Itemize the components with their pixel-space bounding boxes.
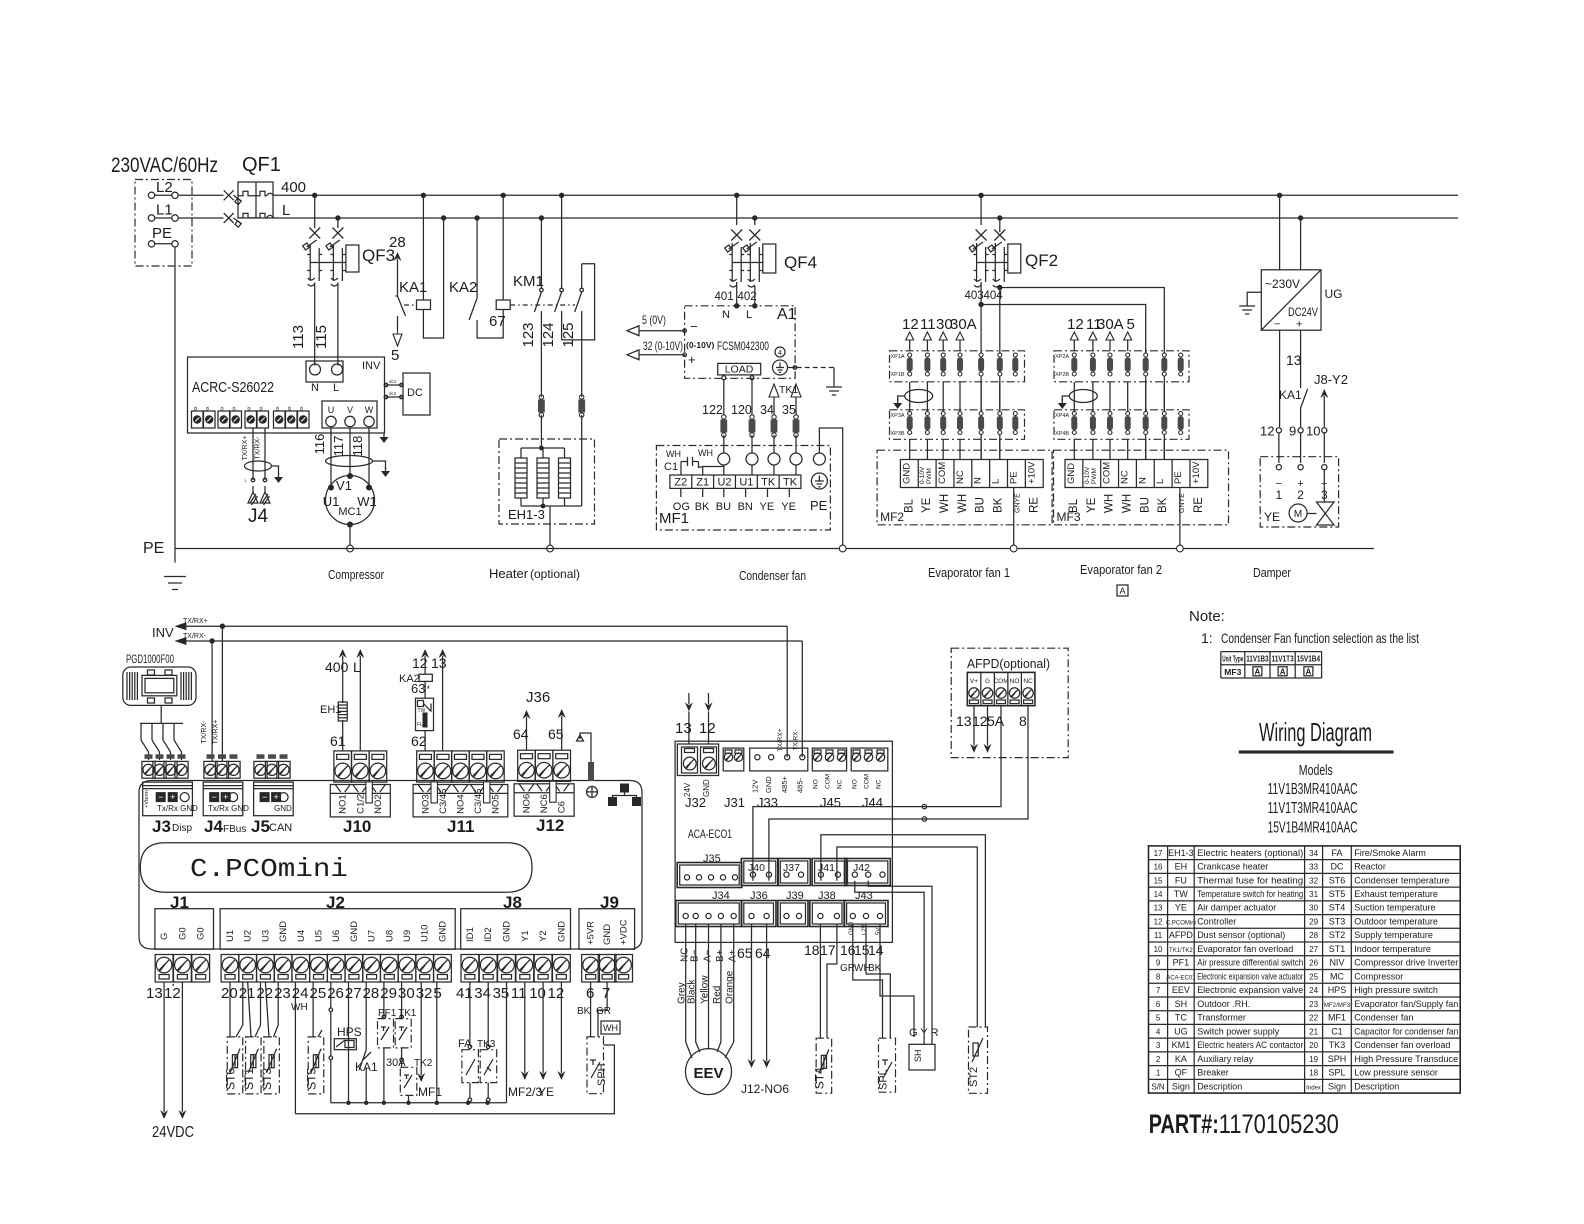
svg-text:Breaker: Breaker: [1197, 1068, 1229, 1078]
reactor DC box: [403, 373, 430, 415]
svg-text:30: 30: [1309, 904, 1318, 913]
svg-text:14: 14: [1154, 890, 1163, 899]
shield ellipse MF2: [905, 390, 933, 403]
damper motor M: [1289, 504, 1307, 522]
svg-text:20: 20: [1309, 1041, 1318, 1050]
svg-text:YE: YE: [760, 501, 775, 513]
svg-text:XP3A: XP3A: [891, 413, 905, 419]
svg-text:RE: RE: [1193, 497, 1205, 513]
24VDC wires: [163, 982, 165, 1112]
svg-text:1: 1: [1156, 1069, 1161, 1078]
svg-text:WH: WH: [698, 448, 713, 458]
svg-text:NO3: NO3: [420, 794, 431, 814]
svg-text:5: 5: [1127, 316, 1135, 333]
svg-text:U6: U6: [331, 930, 342, 942]
svg-text:YE: YE: [1175, 903, 1187, 913]
terminal L1: [148, 215, 154, 221]
analog input 32(0-10V): [639, 354, 685, 356]
inverter control terminal strip: [192, 411, 204, 428]
svg-text:ID1: ID1: [465, 927, 476, 942]
junction on 400 bus: [421, 193, 426, 198]
svg-text:PE: PE: [143, 540, 164, 557]
svg-text:DC24V: DC24V: [1288, 305, 1318, 319]
svg-text:1170105230: 1170105230: [1219, 1109, 1339, 1139]
svg-text:TX/RX-: TX/RX-: [183, 633, 207, 640]
svg-text:xx: xx: [193, 406, 199, 412]
svg-text:35: 35: [782, 403, 796, 417]
shield ellipse MF3: [1069, 390, 1097, 403]
svg-text:Y2: Y2: [538, 930, 549, 942]
svg-text:67: 67: [489, 313, 506, 330]
svg-text:BK: BK: [695, 501, 710, 513]
svg-text:230VAC/60Hz: 230VAC/60Hz: [111, 154, 218, 177]
svg-text:Condenser fan: Condenser fan: [739, 568, 806, 583]
svg-text:HPS: HPS: [337, 1025, 362, 1039]
svg-text:xx: xx: [247, 406, 253, 412]
svg-text:25: 25: [310, 985, 327, 1002]
PE bus ground: [164, 549, 186, 590]
connector J35: [677, 863, 742, 888]
svg-text:12V: 12V: [750, 780, 759, 793]
svg-text:16: 16: [1154, 863, 1163, 872]
svg-text:N: N: [1137, 477, 1148, 484]
svg-text:61: 61: [330, 733, 346, 749]
mains input terminal box: [135, 180, 192, 267]
svg-text:Tx/Rx GND: Tx/Rx GND: [157, 804, 198, 813]
fan controller A1 box: [685, 306, 796, 379]
terminal block J11: [417, 751, 435, 782]
J8 screw terminals: [461, 955, 479, 983]
svg-text:Controller: Controller: [1197, 916, 1236, 926]
svg-text:V+: V+: [970, 678, 978, 685]
svg-text:TX/RX-: TX/RX-: [201, 720, 208, 744]
svg-text:17: 17: [820, 942, 836, 958]
junction on 400 bus: [501, 193, 506, 198]
power supply UG: [1279, 195, 1281, 269]
wire MC1 to PE bus: [349, 525, 351, 546]
input arrows 13 12: [688, 693, 690, 704]
svg-text:NO: NO: [1010, 678, 1020, 685]
svg-text:BK: BK: [577, 1006, 591, 1017]
link wires INV to DC: [385, 384, 404, 386]
svg-text:L: L: [333, 382, 339, 394]
svg-text:KA1: KA1: [1279, 388, 1302, 402]
svg-text:+: +: [688, 352, 696, 367]
lower bus A: [331, 1102, 507, 1104]
wire L2 to QF1: [178, 194, 223, 196]
connector J41: [812, 859, 847, 886]
svg-text:LOAD: LOAD: [725, 364, 754, 376]
svg-text:PWM: PWM: [926, 468, 933, 484]
svg-text:XP2B: XP2B: [1055, 372, 1069, 378]
svg-text:Thermal fuse for heating: Thermal fuse for heating: [1197, 875, 1303, 885]
svg-text:SH: SH: [1175, 999, 1188, 1009]
svg-text:COM: COM: [1102, 462, 1113, 484]
svg-text:A: A: [1306, 668, 1312, 677]
svg-text:4: 4: [1156, 1027, 1161, 1036]
svg-text:Condenser temperature: Condenser temperature: [1354, 875, 1449, 885]
overload TK1 TK2: [401, 982, 403, 1019]
svg-text:26: 26: [327, 985, 344, 1002]
contact TK3: [487, 982, 489, 1045]
svg-text:~230V: ~230V: [1265, 277, 1300, 291]
svg-text:Reactor: Reactor: [1354, 862, 1386, 872]
svg-text:U9: U9: [402, 930, 413, 942]
dust sensor AFPD box: [951, 648, 1068, 757]
svg-text:GND: GND: [556, 921, 567, 942]
svg-text:Capacitor for condenser fan: Capacitor for condenser fan: [1354, 1026, 1458, 1036]
svg-text:AFPD(optional): AFPD(optional): [967, 656, 1050, 671]
svg-text:TC: TC: [1175, 1013, 1187, 1023]
svg-text:xx: xx: [275, 406, 281, 412]
svg-text:120: 120: [731, 403, 752, 417]
svg-text:BN: BN: [738, 501, 753, 513]
svg-text:13: 13: [146, 985, 163, 1002]
svg-text:N: N: [722, 309, 730, 321]
svg-text:FA: FA: [458, 1038, 472, 1050]
svg-text:MC1: MC1: [338, 506, 361, 518]
wire J40 pin1 to AFPD COM: [753, 706, 1001, 881]
UG ground: [1247, 292, 1261, 302]
svg-text:ID2: ID2: [483, 927, 494, 942]
wire 64 from J12 NO6: [526, 717, 528, 750]
svg-text:UG: UG: [1174, 1026, 1188, 1036]
connector J38: [810, 901, 845, 927]
wire EH1-3 to PE bus: [549, 506, 551, 524]
svg-text:GND: GND: [849, 921, 855, 935]
wire 62 KA2 TW FU: [424, 656, 426, 674]
svg-text:EH: EH: [1175, 862, 1188, 872]
svg-text:29: 29: [1309, 917, 1318, 926]
terminal block J12: [518, 750, 536, 781]
svg-text:GND: GND: [502, 921, 513, 942]
sensor ST4: [816, 1038, 832, 1093]
junction on L bus: [539, 215, 544, 220]
svg-text:31: 31: [1309, 890, 1318, 899]
svg-text:ST2: ST2: [1329, 930, 1346, 940]
svg-text:30A: 30A: [1097, 316, 1124, 333]
svg-text:62: 62: [411, 733, 427, 749]
svg-text:485-: 485-: [795, 777, 804, 793]
wire 27 to bus: [348, 982, 350, 1103]
junction on 400 bus: [734, 193, 739, 198]
svg-text:NC: NC: [1119, 470, 1130, 484]
svg-text:MF2/MF3: MF2/MF3: [1324, 1002, 1351, 1009]
wire 14 to SH G: [880, 924, 914, 1037]
svg-text:NO5: NO5: [490, 794, 501, 814]
svg-text:G0: G0: [177, 927, 188, 940]
svg-text:29: 29: [380, 985, 397, 1002]
svg-text:ST3: ST3: [1329, 916, 1346, 926]
svg-text:L: L: [282, 202, 290, 219]
svg-text:124: 124: [540, 322, 557, 347]
svg-text:TK1: TK1: [779, 384, 798, 396]
svg-text:HPS: HPS: [1328, 985, 1347, 995]
svg-text:−: −: [1274, 319, 1280, 331]
svg-text:5V: 5V: [876, 928, 882, 935]
svg-text:ACA-ECO1: ACA-ECO1: [688, 827, 732, 841]
svg-text:ST2: ST2: [968, 1067, 980, 1087]
svg-text:ST4: ST4: [812, 1067, 826, 1089]
svg-text:MF3: MF3: [1057, 510, 1081, 524]
svg-text:Outdoor temperature: Outdoor temperature: [1354, 916, 1438, 926]
svg-text:12: 12: [412, 655, 428, 671]
connector J42: [845, 859, 890, 886]
svg-text:400: 400: [281, 179, 306, 196]
connector J36b: [741, 901, 776, 927]
fan MF3 PE wire to bus: [1179, 488, 1181, 546]
svg-text:13: 13: [1154, 904, 1163, 913]
damper valve: [1317, 502, 1335, 525]
svg-text:12: 12: [1067, 316, 1084, 333]
svg-text:G: G: [985, 678, 990, 685]
svg-text:WH: WH: [603, 1023, 618, 1033]
svg-text:BU: BU: [716, 501, 731, 513]
svg-text:12: 12: [902, 316, 919, 333]
svg-text:GND: GND: [437, 921, 448, 942]
connector J34: [676, 901, 742, 927]
ground at INV output: [380, 437, 389, 443]
pressure switch PF1: [383, 982, 385, 1019]
svg-text:FA: FA: [1331, 848, 1342, 858]
svg-text:Electric heaters AC contactor: Electric heaters AC contactor: [1197, 1040, 1303, 1050]
svg-text:SPH: SPH: [1328, 1054, 1347, 1064]
svg-text:11: 11: [1154, 931, 1163, 940]
svg-text:NO4: NO4: [455, 794, 466, 814]
svg-text:11V1B3: 11V1B3: [1246, 654, 1269, 663]
terminal block J10: [334, 751, 352, 782]
svg-text:32: 32: [416, 985, 433, 1002]
svg-text:MF1: MF1: [659, 510, 689, 527]
svg-text:EH1-3: EH1-3: [508, 507, 545, 522]
pressure switch HPS: [330, 982, 332, 1008]
svg-text:Wiring Diagram: Wiring Diagram: [1259, 717, 1372, 747]
connector J40: [741, 859, 778, 886]
wire EH1 output 400: [342, 656, 344, 703]
bus A to J8 wire 35: [506, 982, 508, 1103]
svg-text:L: L: [1155, 479, 1166, 484]
svg-text:INV: INV: [362, 360, 381, 372]
J33 connector: [750, 748, 808, 771]
wire ST2 pin2 from J41 pin1: [821, 835, 986, 1027]
svg-text:WH: WH: [939, 494, 951, 513]
svg-text:U2: U2: [717, 477, 731, 489]
svg-text:+5VR: +5VR: [586, 921, 597, 945]
junction on L bus: [997, 215, 1002, 220]
svg-text:U8: U8: [384, 930, 395, 942]
svg-text:113: 113: [290, 325, 307, 349]
svg-text:SH: SH: [913, 1049, 923, 1062]
svg-text:NC: NC: [1023, 678, 1033, 685]
svg-text:5A: 5A: [987, 713, 1005, 729]
wire 24 white to bus: [294, 982, 296, 1114]
svg-text:22: 22: [1309, 1014, 1318, 1023]
damper terminals 12 9 10: [1276, 428, 1281, 433]
svg-text:27: 27: [345, 985, 362, 1002]
wire J40 pin2 to AFPD NC: [769, 706, 1028, 881]
svg-text:(0-10V): (0-10V): [686, 340, 715, 350]
svg-text:TK1/TK2: TK1/TK2: [1169, 948, 1193, 954]
svg-text:Damper: Damper: [1253, 565, 1292, 580]
svg-text:J44: J44: [862, 795, 883, 810]
svg-text:TK3: TK3: [477, 1039, 496, 1050]
svg-text:FBus: FBus: [223, 824, 246, 835]
MF2 signal arrows: [909, 340, 911, 351]
MF1 terminal strip Z2 Z1 U2 U1 TK TK: [670, 475, 801, 488]
svg-text:C3/45: C3/45: [473, 789, 484, 814]
heater EH1-3 box: [499, 439, 595, 524]
svg-text:FU: FU: [1175, 875, 1187, 885]
wire 403 to MF2 N: [980, 282, 982, 460]
svg-text:U10: U10: [420, 925, 431, 942]
svg-text:ST4: ST4: [1329, 903, 1346, 913]
shield ellipse J4 cable: [245, 461, 272, 471]
svg-text:11V1B3MR410AAC: 11V1B3MR410AAC: [1268, 781, 1358, 798]
J4 connector arrows: [248, 486, 258, 505]
svg-text:GND: GND: [1066, 463, 1077, 484]
svg-text:FU: FU: [417, 722, 424, 728]
svg-text:TX/RX-: TX/RX-: [255, 436, 262, 460]
wire ST2 pin1 from J41 pin2: [837, 847, 977, 1027]
junction on L bus: [1298, 215, 1303, 220]
svg-text:33: 33: [1309, 863, 1318, 872]
svg-text:GR: GR: [596, 1006, 611, 1017]
svg-text:18: 18: [804, 942, 820, 958]
svg-text:UG: UG: [1325, 287, 1343, 301]
lower bus B to SPH: [295, 1045, 614, 1114]
junction on 400 bus: [1277, 193, 1282, 198]
svg-text:U: U: [328, 405, 335, 415]
svg-text:Air pressure differential swit: Air pressure differential switch: [1197, 958, 1303, 968]
svg-text:PE: PE: [810, 498, 828, 513]
connector XP1A block: [890, 351, 1025, 382]
svg-text:Indoor temperature: Indoor temperature: [1354, 944, 1431, 954]
svg-text:Sign: Sign: [1328, 1081, 1346, 1091]
svg-text:Evaporator fan 1: Evaporator fan 1: [928, 565, 1010, 580]
svg-text:−: −: [212, 792, 217, 802]
svg-text:J31: J31: [724, 795, 745, 810]
terminal block J3: [142, 761, 155, 778]
svg-text:PF1: PF1: [378, 1008, 397, 1019]
svg-text:J33: J33: [757, 795, 778, 810]
svg-text:NC6: NC6: [539, 794, 550, 813]
svg-text:Switch power supply: Switch power supply: [1197, 1026, 1280, 1036]
svg-text:GND: GND: [602, 924, 613, 945]
svg-text:KA2: KA2: [399, 673, 420, 685]
svg-text:ST1: ST1: [242, 1068, 256, 1090]
svg-text:8: 8: [1156, 972, 1161, 981]
svg-text:485+: 485+: [780, 775, 789, 793]
svg-text:Disp: Disp: [172, 823, 192, 834]
A mark under fan2: [1117, 585, 1128, 596]
svg-text:123: 123: [520, 322, 537, 347]
svg-text:13: 13: [431, 655, 447, 671]
svg-text:+: +: [273, 792, 278, 802]
svg-text:L: L: [353, 659, 361, 675]
svg-text:U1: U1: [323, 494, 340, 509]
svg-text:XP1B: XP1B: [891, 372, 905, 378]
svg-text:G: G: [159, 933, 170, 940]
connector J37: [778, 859, 811, 886]
junction on L bus: [474, 215, 479, 220]
svg-text:Evaporator fan overload: Evaporator fan overload: [1197, 944, 1293, 954]
wire 5 to bus: [436, 982, 438, 1103]
MF1 PE wire to bus: [819, 428, 842, 545]
svg-text:32 (0-10V): 32 (0-10V): [643, 341, 683, 353]
connector XP3A block: [890, 410, 1025, 440]
svg-text:Description: Description: [1197, 1081, 1242, 1091]
svg-text:QF: QF: [1175, 1068, 1188, 1078]
svg-text:118: 118: [350, 436, 365, 457]
svg-text:12: 12: [1260, 424, 1274, 439]
svg-text:BK: BK: [1157, 497, 1169, 513]
svg-text:NO: NO: [813, 779, 820, 789]
wire 12 arrow: [560, 982, 562, 1073]
wire YE arrow: [542, 982, 544, 1073]
svg-text:Evaporator fan 2: Evaporator fan 2: [1080, 562, 1162, 577]
svg-text:EEV: EEV: [1172, 985, 1190, 995]
svg-text:64: 64: [513, 726, 529, 742]
fan MF3 dashed box: [1054, 450, 1229, 525]
svg-text:Condenser fan: Condenser fan: [1354, 1013, 1413, 1023]
svg-text:2: 2: [1297, 488, 1304, 502]
wire UG minus to damper 1: [1279, 330, 1281, 427]
svg-text:PART#:: PART#:: [1149, 1109, 1219, 1139]
svg-text:DC: DC: [1330, 862, 1343, 872]
svg-text:XP2A: XP2A: [1055, 354, 1069, 360]
svg-text:J4: J4: [248, 506, 269, 527]
svg-text:5: 5: [433, 985, 441, 1002]
condenser fan selection table: [1221, 651, 1322, 653]
svg-text:MF1: MF1: [1328, 1013, 1346, 1023]
svg-text:S/N: S/N: [1151, 1082, 1165, 1091]
ACA-ECO1 box: [675, 741, 892, 942]
svg-text:L2: L2: [156, 179, 173, 196]
svg-text:TX/RX+: TX/RX+: [213, 720, 220, 745]
svg-text:23: 23: [274, 985, 291, 1002]
svg-text:13: 13: [675, 720, 692, 737]
svg-text:A: A: [1119, 586, 1125, 596]
svg-text:C1/2: C1/2: [355, 794, 366, 814]
wire SH Y from J42 pin1: [855, 881, 924, 1037]
svg-text:7: 7: [1156, 986, 1161, 995]
svg-text:27: 27: [1309, 945, 1318, 954]
svg-text:Y1: Y1: [520, 930, 531, 942]
J1 screw terminals: [155, 955, 173, 983]
svg-text:13: 13: [956, 713, 972, 729]
svg-text:64: 64: [755, 945, 771, 961]
svg-text:NC: NC: [837, 779, 844, 789]
svg-text:14: 14: [868, 942, 884, 958]
svg-text:ST5: ST5: [305, 1068, 319, 1090]
legend table: [1149, 846, 1461, 1093]
wire MF1 arrow: [420, 982, 422, 1075]
KA1 contact low: [365, 982, 367, 1050]
svg-text:GND: GND: [278, 921, 289, 942]
svg-text:COM: COM: [993, 678, 1008, 685]
svg-text:J4: J4: [204, 817, 223, 836]
condenser fan MF1 box: [656, 446, 830, 531]
svg-text:GNYE: GNYE: [1014, 493, 1021, 513]
breaker QF2: [980, 195, 982, 225]
sensor ST2: [969, 1027, 988, 1093]
svg-text:J36: J36: [526, 689, 550, 706]
svg-text:11: 11: [920, 316, 936, 333]
svg-text:Tx/Rx GND: Tx/Rx GND: [208, 804, 249, 813]
svg-text:TK: TK: [783, 477, 798, 489]
wire 120: [751, 380, 753, 415]
svg-text:YE: YE: [781, 501, 796, 513]
